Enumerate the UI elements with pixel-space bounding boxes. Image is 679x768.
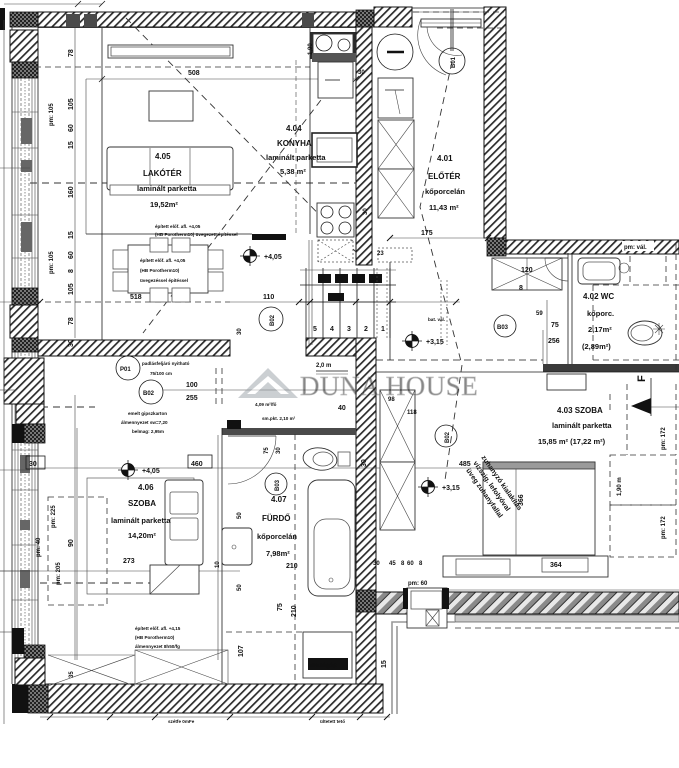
svg-text:28: 28 [370, 277, 377, 283]
svg-text:4.04: 4.04 [286, 124, 302, 133]
svg-text:F: F [636, 375, 648, 382]
wall between room 4.06 and bathroom [218, 428, 222, 684]
wall kitchen/hall divider [356, 27, 372, 265]
wall block top-left corner [10, 12, 38, 27]
wall top band of bathroom (dark) [222, 428, 356, 435]
svg-text:30: 30 [373, 561, 380, 567]
label bathroom 4.07 [257, 495, 297, 558]
svg-text:30: 30 [358, 70, 365, 76]
svg-text:30: 30 [361, 459, 368, 467]
svg-text:3: 3 [347, 326, 351, 333]
dim pm172 upper [661, 427, 667, 450]
x-brace left [48, 655, 135, 686]
dim 59 75 256 [536, 311, 560, 345]
annotation gipszkarton [121, 411, 168, 434]
svg-text:FÜRDŐ: FÜRDŐ [262, 514, 290, 523]
svg-text:P01: P01 [120, 367, 131, 373]
dashed rects east 4.03 [610, 384, 676, 557]
svg-text:B01: B01 [451, 56, 457, 68]
living south face line [86, 233, 252, 235]
svg-text:485: 485 [459, 461, 471, 468]
svg-text:160: 160 [68, 186, 75, 198]
washbasin [578, 258, 629, 284]
svg-text:pm: 60: pm: 60 [408, 581, 428, 587]
annotation living upper [155, 224, 238, 237]
svg-text:B03: B03 [275, 479, 281, 491]
annotation living lower [140, 258, 188, 283]
svg-text:szétfe 0mFe: szétfe 0mFe [168, 719, 195, 724]
bed 4.03 footer band [443, 556, 608, 577]
band dark mark near kitchen [302, 13, 314, 27]
svg-text:2,0 m: 2,0 m [316, 363, 331, 369]
coffee table / tv [149, 91, 193, 121]
svg-text:5,38 m²: 5,38 m² [280, 167, 306, 176]
svg-text:30: 30 [276, 447, 282, 454]
svg-text:28: 28 [336, 277, 343, 283]
dim 518 [130, 294, 142, 301]
svg-text:518: 518 [130, 294, 142, 301]
svg-text:+3,15: +3,15 [442, 485, 460, 492]
svg-text:B02: B02 [270, 314, 276, 326]
wall top band over entrance [374, 7, 412, 27]
room 4.06 west line [76, 428, 78, 660]
wall south of living (band at stairs) [306, 338, 356, 356]
svg-text:laminált parketta: laminált parketta [137, 184, 197, 193]
facade hatched pier 2 [10, 288, 38, 352]
dim ticks y302 [37, 299, 459, 305]
wall block at SE bathroom corner [357, 590, 376, 612]
kitchen cabinet 1 [318, 62, 353, 98]
dim 364 [550, 562, 562, 569]
svg-text:105: 105 [68, 98, 75, 110]
section dashed line mid living [30, 182, 356, 184]
circle B02 east [435, 425, 457, 447]
wc wardrobe X box [492, 258, 562, 290]
svg-text:laminált parketta: laminált parketta [266, 153, 326, 162]
hall cabinet [378, 78, 413, 118]
level marker +3,15 room403 [418, 477, 460, 497]
wall pier between kitchen and entrance [356, 10, 374, 27]
washing machine [303, 632, 352, 678]
svg-text:pm: 172: pm: 172 [661, 427, 667, 450]
dim line 508 [86, 76, 359, 82]
svg-text:45: 45 [389, 561, 396, 567]
dim 107 [238, 645, 245, 657]
stair left dashed double [309, 240, 312, 345]
svg-text:78: 78 [68, 49, 75, 57]
dim 23 [377, 251, 384, 257]
svg-text:(HB Porotherm10) üvegezett épí: (HB Porotherm10) üvegezett építéssel [155, 232, 238, 237]
svg-text:álmennyezet sw=7,20: álmennyezet sw=7,20 [121, 420, 168, 425]
svg-text:+4,05: +4,05 [142, 468, 160, 475]
dim ticks bottom row [47, 714, 390, 720]
text bat val [428, 317, 445, 322]
entrance threshold dashed [413, 12, 504, 28]
dash stub NE [651, 406, 679, 408]
svg-text:30: 30 [68, 339, 75, 347]
left chain numbers [68, 49, 75, 347]
north arrow F [631, 375, 651, 416]
dim 110 [263, 294, 274, 301]
dim 1230 top kitchen [308, 43, 314, 55]
label room 4.06 [111, 483, 171, 540]
svg-text:pm: 225: pm: 225 [51, 505, 57, 528]
svg-text:30: 30 [363, 208, 369, 215]
terrace edge gray L-line [392, 622, 455, 714]
svg-text:kőporc.: kőporc. [587, 309, 614, 318]
wc left wall [568, 253, 572, 364]
dim 30 kitchen top [358, 70, 365, 76]
dim 30 bath right [361, 459, 368, 467]
wardrobe dashed 4.06 [48, 497, 107, 605]
svg-text:256: 256 [548, 338, 560, 345]
circle P01 [116, 356, 140, 380]
svg-text:1: 1 [381, 326, 385, 333]
wc dim vertical [543, 300, 547, 364]
svg-text:364: 364 [550, 562, 562, 569]
svg-text:épített előf. afl. +4,15: épített előf. afl. +4,15 [135, 626, 181, 631]
watermark logo triangle [238, 368, 298, 398]
diagonal D1 living [126, 18, 356, 252]
svg-text:15: 15 [381, 660, 388, 668]
plaster line under south band 4.03 [455, 615, 679, 622]
level marker +4,05 kitchen [240, 246, 282, 266]
top dim line [0, 1, 105, 30]
svg-text:175: 175 [421, 230, 433, 237]
level marker +3,15 hall [402, 331, 444, 351]
circle B02 stairs [259, 307, 283, 331]
dim pm172 lower [661, 516, 667, 539]
sideboard top counter [108, 45, 233, 58]
svg-text:60: 60 [407, 561, 414, 567]
dim line y302 (518/110) [35, 301, 460, 303]
stair handrail mark [300, 293, 396, 302]
svg-text:15: 15 [68, 141, 75, 149]
facade transom lines [12, 112, 38, 600]
wardrobe X 4.03 lower [380, 462, 415, 530]
hall wardrobe X upper [378, 120, 414, 169]
svg-text:mosógép: mosógép [310, 663, 337, 669]
svg-text:460: 460 [191, 461, 203, 468]
svg-text:ELŐTÉR: ELŐTÉR [428, 172, 461, 181]
svg-text:4.07: 4.07 [271, 495, 287, 504]
shelf under WC wall [547, 374, 586, 390]
stair nosing lines [300, 270, 396, 285]
right edge dashed vertical [675, 244, 677, 372]
svg-text:508: 508 [188, 70, 200, 77]
bathroom washbasin left [222, 528, 252, 565]
line y589 right [440, 589, 679, 591]
svg-text:4.02 WC: 4.02 WC [583, 292, 614, 301]
svg-text:(2,89m²): (2,89m²) [582, 342, 611, 351]
dim line y390 (100/255) [163, 389, 356, 391]
label hall 4.01 [425, 154, 465, 212]
svg-text:8: 8 [68, 269, 75, 273]
dim 366 bed [518, 494, 525, 506]
kitchen sink unit [310, 32, 356, 62]
wall corner block NW of WC [487, 238, 506, 256]
wall dark band south of WC [543, 364, 679, 372]
svg-text:B02: B02 [143, 391, 155, 397]
dashed offset line top [35, 66, 310, 68]
door frame dashes room406 [216, 368, 222, 408]
wall north of WC (horizontal hatched band) [506, 240, 679, 254]
stair step numbers [313, 326, 385, 333]
dim line 175 hall [390, 237, 488, 239]
circle B02 room406 [139, 380, 163, 404]
svg-text:75: 75 [277, 603, 284, 611]
dim 35 brace [69, 671, 75, 678]
svg-text:30: 30 [29, 461, 37, 468]
svg-text:110: 110 [263, 294, 274, 301]
hall small shelf dashed [378, 248, 412, 262]
dim row 30 45 8 60 8 [373, 561, 423, 567]
svg-text:75: 75 [264, 447, 270, 454]
wc door arc [545, 258, 568, 281]
dim line vertical left outer [3, 20, 5, 724]
svg-text:épített előf. afl. +4,05: épített előf. afl. +4,05 [140, 258, 186, 263]
dim 100 255 [186, 382, 198, 402]
svg-text:118: 118 [407, 410, 417, 416]
dim line y468 [30, 467, 483, 469]
svg-text:28: 28 [319, 277, 326, 283]
dim 15 [381, 660, 388, 668]
dim 460 box [188, 455, 212, 468]
dim 10 wall [215, 561, 221, 568]
svg-text:98: 98 [388, 397, 395, 403]
facade hatched pier 4 (bottom) [12, 628, 45, 685]
svg-text:30: 30 [237, 328, 243, 335]
room 4.06 inner outline [87, 478, 194, 594]
wall south of living (band left part) [38, 340, 230, 356]
dim tick 30 wall rotated [363, 208, 369, 215]
svg-text:sm.pkt. 2,10 m²: sm.pkt. 2,10 m² [262, 416, 296, 421]
bed 4.06 [165, 480, 203, 565]
bathroom lower dashed [226, 631, 303, 633]
svg-text:7,98m²: 7,98m² [266, 549, 290, 558]
svg-text:5: 5 [313, 326, 317, 333]
svg-text:1,90: 1,90 [308, 43, 314, 55]
svg-text:pm: vál.: pm: vál. [624, 245, 647, 251]
dim chain vertical x75 [74, 28, 76, 660]
dim 30 stairdim [237, 328, 243, 335]
diagonal escape route hall [420, 62, 462, 480]
facade hatched pier 3 [4, 358, 45, 443]
bed 4.03 [483, 462, 595, 555]
circle B01 [439, 48, 465, 74]
dim 210 bath [286, 563, 298, 570]
svg-text:4.05: 4.05 [155, 152, 171, 161]
diagonal D2 living [143, 62, 350, 333]
bathroom toilet [302, 446, 350, 473]
svg-text:15: 15 [68, 231, 75, 239]
top band inner face line [38, 27, 356, 29]
svg-text:60: 60 [68, 251, 75, 259]
svg-text:10: 10 [215, 561, 221, 568]
rotated annotation strokes [463, 454, 523, 523]
svg-text:pm: 40: pm: 40 [36, 537, 42, 557]
dim 75 30 bath top [264, 447, 282, 454]
bottom tick row [40, 716, 390, 718]
svg-text:15,85 m² (17,22 m²): 15,85 m² (17,22 m²) [538, 437, 606, 446]
stair dotted edge strip [377, 268, 387, 338]
svg-text:11,43 m²: 11,43 m² [429, 203, 459, 212]
dim 175 [421, 230, 433, 237]
stair treads [306, 268, 390, 338]
wall line south of hall/4.03 [376, 360, 679, 372]
circle B03 bath [265, 473, 287, 495]
svg-text:120: 120 [521, 267, 533, 274]
svg-text:1,90 m: 1,90 m [617, 477, 623, 496]
svg-text:laminált parketta: laminált parketta [552, 421, 612, 430]
dim 1,90m [617, 477, 623, 496]
svg-text:107: 107 [238, 645, 245, 657]
wall south band bottom-left [48, 684, 383, 713]
svg-text:60: 60 [68, 124, 75, 132]
label living 4.05 [137, 152, 197, 209]
hall wardrobe X lower [378, 169, 414, 218]
svg-text:épített előf. afl. +4,05: épített előf. afl. +4,05 [155, 224, 201, 229]
dim 485 [459, 461, 471, 468]
svg-text:kőporcelán: kőporcelán [257, 532, 297, 541]
wall top band north (living+kitchen) [38, 12, 356, 27]
text pm60 [408, 581, 428, 587]
kitchen lower cabinet dotted [318, 240, 353, 262]
text pm val [622, 241, 654, 251]
dim ticks y238 [387, 235, 491, 241]
svg-text:üvegezéssel építéssel: üvegezéssel építéssel [140, 278, 188, 283]
svg-text:35: 35 [69, 671, 75, 678]
label wc 4.02 [582, 292, 614, 351]
entrance door swing arc [418, 19, 462, 75]
svg-text:(HB Porotherm10): (HB Porotherm10) [135, 635, 175, 640]
dash line in room [40, 582, 150, 584]
facade hatched pier 1 [10, 30, 38, 62]
svg-text:padlásfeljáró nyitható: padlásfeljáró nyitható [142, 361, 190, 366]
facade glazing lines [15, 78, 35, 660]
svg-text:273: 273 [123, 558, 135, 565]
svg-text:álmennyezet 8h50/fg: álmennyezet 8h50/fg [135, 644, 180, 649]
wall bathroom east (vertical hatched) [356, 338, 376, 684]
level marker +4,05 room406 [118, 460, 160, 480]
svg-text:kőporcelán: kőporcelán [425, 187, 465, 196]
svg-text:ültetett tető: ültetett tető [320, 719, 345, 724]
facade dark sill 1 [12, 62, 38, 78]
left lower chain [36, 505, 75, 585]
svg-text:LAKÓTÉR: LAKÓTÉR [143, 169, 182, 178]
dim 120 wc [519, 267, 533, 292]
svg-text:78: 78 [68, 317, 75, 325]
wall block above bathroom band [227, 420, 241, 429]
svg-text:pm: 205: pm: 205 [56, 562, 62, 585]
svg-text:4.03 SZOBA: 4.03 SZOBA [557, 406, 603, 415]
wall block SW corner black [12, 684, 48, 713]
annotation P01 [142, 361, 190, 376]
svg-text:+3,15: +3,15 [426, 339, 444, 346]
dining table [113, 238, 223, 302]
left edge stub lines [0, 168, 38, 632]
svg-text:90: 90 [68, 539, 75, 547]
circle B03 wc [494, 315, 516, 337]
line y571 left [0, 570, 240, 572]
svg-text:210: 210 [286, 563, 298, 570]
entrance door leaf [451, 9, 453, 51]
bathroom center dashed line [294, 434, 296, 690]
svg-text:14,20m²: 14,20m² [128, 531, 156, 540]
svg-text:19,52m²: 19,52m² [150, 200, 178, 209]
dim 508 [188, 70, 200, 77]
svg-text:255: 255 [186, 395, 198, 402]
stair tread labels 28 [318, 274, 382, 283]
dim 273 [123, 558, 135, 565]
svg-text:105: 105 [68, 283, 75, 295]
facade outer frame [12, 27, 38, 684]
svg-text:pm: 105: pm: 105 [49, 103, 55, 126]
lintel over entrance door [412, 8, 506, 12]
annotation room406 bottom [135, 626, 181, 649]
toilet [628, 321, 665, 345]
wall east of hallway (vertical hatched) [484, 7, 506, 238]
svg-text:SZOBA: SZOBA [128, 499, 156, 508]
svg-text:23: 23 [377, 251, 384, 257]
window frame marks on top band [66, 14, 97, 27]
svg-text:50: 50 [237, 584, 243, 591]
svg-text:210: 210 [291, 605, 298, 617]
dim 30 box left [26, 456, 45, 469]
svg-text:100: 100 [186, 382, 198, 389]
label room 4.03 [538, 406, 612, 446]
svg-text:(HB Porotherm10): (HB Porotherm10) [140, 268, 180, 273]
boiler circle [377, 34, 413, 70]
kitchen fridge box [312, 133, 357, 167]
svg-text:pm: 105: pm: 105 [49, 251, 55, 274]
wc dashed area rect [593, 256, 679, 360]
svg-text:pm: 172: pm: 172 [661, 516, 667, 539]
svg-text:366: 366 [518, 494, 525, 506]
dash line left lower [17, 406, 95, 408]
stair right dotted extension [441, 280, 447, 345]
svg-text:4: 4 [330, 326, 334, 333]
living west wall line [86, 28, 102, 340]
dim 75 210 bath bottom [277, 603, 298, 617]
facade mullion blocks [20, 118, 32, 588]
hall west wall line below stairs [389, 256, 391, 360]
svg-text:75/100 cm: 75/100 cm [150, 371, 172, 376]
wardrobe X 4.03 upper [380, 390, 415, 462]
svg-text:4.06: 4.06 [138, 483, 154, 492]
annotation 4,09 m2 [255, 402, 296, 421]
svg-text:8: 8 [519, 285, 523, 292]
pm105 labels [49, 103, 55, 274]
svg-text:belmag: 2,95m: belmag: 2,95m [132, 429, 164, 434]
svg-text:B02: B02 [445, 431, 451, 443]
svg-text:50: 50 [237, 512, 243, 519]
svg-text:4,09 m²/fő: 4,09 m²/fő [255, 402, 277, 407]
dim 40 bath [338, 405, 346, 412]
svg-text:75: 75 [551, 322, 559, 329]
wall south band of room 4.03 [376, 592, 679, 614]
kitchen left wall line [296, 28, 310, 234]
svg-text:59: 59 [536, 311, 543, 317]
kitchen stove 4 burners [317, 203, 354, 237]
svg-text:40: 40 [338, 405, 346, 412]
x-brace right [135, 650, 228, 684]
label kitchen 4.04 [266, 124, 326, 176]
svg-text:laminált parketta: laminált parketta [111, 516, 171, 525]
bed fold corner [150, 565, 199, 594]
svg-text:B03: B03 [497, 325, 509, 331]
svg-text:2,17m²: 2,17m² [588, 325, 612, 334]
